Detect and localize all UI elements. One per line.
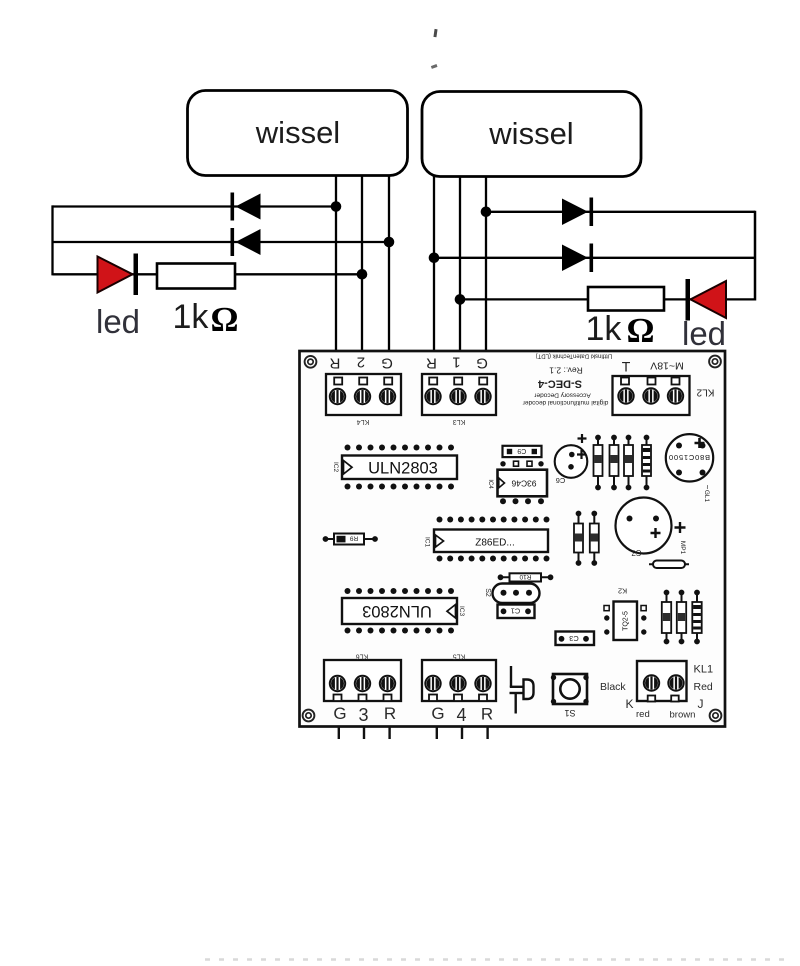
corner screw bottom-right — [710, 710, 722, 722]
svg-text:R: R — [384, 704, 396, 723]
node junction left 1 — [331, 201, 342, 212]
svg-text:1k: 1k — [173, 298, 210, 336]
plus mark right of C7 — [675, 522, 686, 533]
svg-text:J: J — [698, 697, 704, 711]
svg-text:S2: S2 — [484, 588, 491, 597]
svg-text:KL1: KL1 — [694, 664, 714, 676]
IC2 ULN2803 top pins — [345, 445, 455, 451]
node junction left 2 — [384, 237, 395, 248]
svg-text:TQ2-5: TQ2-5 — [623, 611, 630, 631]
svg-text:wissel: wissel — [255, 115, 340, 150]
jack symbol — [510, 666, 534, 714]
svg-text:93C46: 93C46 — [511, 479, 536, 489]
IC4 body 93C46 — [498, 470, 548, 497]
wire left horizontal 1 — [53, 205, 337, 207]
resonator S2 (oval) — [493, 584, 540, 604]
svg-text:K: K — [626, 697, 634, 711]
capacitor C1 — [498, 605, 535, 619]
terminal block KL3 — [422, 374, 496, 415]
svg-text:GL1: GL1 — [703, 490, 710, 503]
node junction right 1 — [481, 207, 492, 218]
resistor R7 (vertical) — [624, 435, 633, 491]
jumper MP1 body — [649, 561, 689, 569]
svg-text:digital multifunctional decode: digital multifunctional decoder — [522, 399, 608, 406]
capacitor C9 — [503, 446, 542, 457]
LED1 left — [98, 254, 139, 296]
svg-text:2: 2 — [357, 354, 365, 371]
faint bottom artifact line — [205, 958, 793, 961]
IC2 bottom pins — [345, 484, 455, 490]
speck mark top 1 — [433, 29, 437, 37]
wire left vertical 2 — [361, 176, 363, 382]
PCB board outline — [300, 351, 726, 727]
IC2 ULN2803 body — [342, 456, 457, 480]
svg-text:KL2: KL2 — [696, 387, 714, 398]
svg-text:B80C1500: B80C1500 — [669, 453, 710, 462]
bridge rectifier GL1 — [666, 434, 713, 481]
svg-text:C7: C7 — [631, 548, 642, 557]
wire right horizontal 2 — [434, 257, 755, 259]
node junction right 3 — [455, 294, 466, 305]
svg-text:G: G — [333, 704, 346, 723]
svg-text:Black: Black — [600, 681, 626, 693]
speck mark top 2 — [431, 64, 438, 69]
svg-text:brown: brown — [670, 710, 696, 721]
diode R8 striped (vertical) — [642, 435, 651, 491]
wire left horizontal 2 — [53, 241, 390, 243]
diode D3 right top — [562, 198, 593, 227]
svg-text:led: led — [96, 303, 140, 340]
diode D2 left lower — [231, 228, 261, 256]
wire right horizontal 3 — [460, 298, 755, 300]
svg-text:3: 3 — [358, 705, 368, 725]
wissel box left — [188, 91, 408, 176]
svg-text:Red: Red — [694, 681, 713, 693]
corner screw bottom-left — [303, 710, 315, 722]
wire left horizontal 3 — [53, 273, 363, 275]
silk text block top center (rotated 180) — [522, 353, 612, 407]
svg-text:IC3: IC3 — [458, 606, 465, 617]
wissel box right — [422, 92, 641, 177]
corner screw top-right — [709, 356, 721, 368]
terminal block KL5 — [422, 660, 496, 701]
terminal block KL1 — [637, 661, 687, 702]
wire left vertical 3 — [388, 176, 390, 382]
diode D4 right lower — [562, 244, 593, 273]
resistor R6 (vertical) — [610, 435, 619, 491]
svg-text:4: 4 — [456, 705, 466, 725]
resistor R1 (vertical, mid) — [590, 511, 599, 566]
wire right vertical 2 — [459, 176, 461, 381]
wire stub below KL6 pin R — [388, 728, 390, 740]
svg-text:S-DEC-4: S-DEC-4 — [537, 378, 582, 390]
svg-text:R10: R10 — [519, 573, 531, 580]
svg-text:Z86ED...: Z86ED... — [475, 538, 514, 549]
corner screw top-left — [305, 356, 317, 368]
svg-text:led: led — [682, 315, 726, 352]
svg-text:R: R — [426, 355, 437, 372]
resistor R9 (horizontal, left) — [323, 534, 378, 545]
resistor R3 (vertical, bottom right) — [662, 590, 671, 645]
svg-text:C1: C1 — [511, 607, 521, 616]
svg-text:KL6: KL6 — [356, 653, 369, 660]
svg-text:KL3: KL3 — [453, 418, 466, 425]
svg-text:Littfinski DatenTechnik (LDT): Littfinski DatenTechnik (LDT) — [536, 353, 613, 359]
wire stub below KL5 pin G — [436, 728, 438, 740]
svg-text:Ω: Ω — [211, 300, 239, 339]
svg-text:Ω: Ω — [627, 311, 655, 350]
wire right horizontal 1 — [486, 211, 755, 213]
wire right vertical 1 — [433, 176, 435, 381]
wire right edge vertical — [754, 211, 757, 301]
svg-text:ULN2803: ULN2803 — [368, 460, 438, 478]
IC1 Z86ED body — [434, 530, 548, 553]
resistor R2 (vertical, mid) — [574, 511, 583, 566]
svg-text:K2: K2 — [618, 587, 627, 596]
wire right vertical 3 — [485, 176, 487, 381]
capacitor C7 — [616, 498, 672, 558]
IC3 ULN2803 body (rotated text) — [342, 598, 457, 624]
svg-text:T: T — [622, 359, 631, 375]
svg-text:ULN2803: ULN2803 — [362, 602, 432, 620]
resistor 1k left — [157, 264, 235, 289]
svg-text:Rev.: 2.1: Rev.: 2.1 — [549, 366, 583, 376]
wire stub below KL5 pin R — [486, 728, 488, 740]
IC3 ULN2803 top pins — [345, 588, 455, 594]
svg-text:red: red — [636, 709, 650, 720]
svg-text:IC4: IC4 — [487, 479, 493, 489]
resistor 1k right — [588, 287, 664, 311]
svg-text:C3: C3 — [569, 634, 579, 643]
LED2 right — [686, 279, 727, 321]
svg-text:R: R — [481, 705, 493, 724]
push button S1 — [551, 674, 589, 704]
wire stub below KL6 pin G — [338, 728, 340, 740]
svg-text:Accessory Decoder: Accessory Decoder — [533, 392, 590, 399]
svg-text:C6: C6 — [556, 476, 566, 485]
terminal block KL2 — [613, 376, 690, 415]
IC3 bottom pins — [345, 628, 455, 634]
terminal block KL4 — [326, 374, 401, 415]
capacitor C3 — [556, 632, 595, 646]
svg-text:1: 1 — [452, 354, 460, 371]
svg-text:R: R — [329, 355, 340, 372]
relay K2 — [604, 602, 647, 641]
svg-text:G: G — [476, 355, 488, 372]
node junction left 3 — [357, 269, 368, 280]
wire left vertical 1 — [335, 176, 337, 382]
wire stub below KL5 pin 4 — [461, 728, 463, 740]
node junction right 2 — [429, 252, 440, 263]
svg-text:MP1: MP1 — [679, 541, 686, 555]
svg-text:wissel: wissel — [488, 116, 573, 151]
svg-text:IC2: IC2 — [332, 462, 339, 473]
terminal block KL6 — [324, 660, 401, 701]
svg-text:G: G — [381, 355, 393, 372]
svg-text:KL4: KL4 — [357, 418, 370, 425]
svg-text:S1: S1 — [564, 708, 575, 718]
resistor R4 (vertical, bottom right) — [677, 590, 686, 645]
resistor R5 (vertical) — [594, 435, 603, 491]
wire left edge vertical — [51, 205, 53, 275]
capacitor C6 — [555, 434, 588, 485]
svg-text:IC1: IC1 — [424, 537, 431, 548]
IC4 bottom pins — [500, 498, 544, 504]
IC1 bottom pins — [437, 556, 550, 562]
svg-text:G: G — [431, 704, 444, 723]
diode D5 striped (vertical, bottom right) — [692, 590, 701, 645]
diode D1 left top — [231, 193, 261, 221]
resistor R10 (horizontal) — [498, 573, 554, 582]
svg-text:C9: C9 — [517, 447, 526, 454]
svg-text:KL5: KL5 — [453, 653, 466, 660]
svg-text:R9: R9 — [349, 535, 358, 542]
IC1 Z86ED top pins — [437, 517, 550, 523]
svg-text:M~18V: M~18V — [650, 360, 684, 372]
svg-text:1k: 1k — [586, 310, 623, 348]
IC4 top pin row — [500, 461, 543, 466]
wire stub below KL6 pin 3 — [363, 728, 365, 740]
